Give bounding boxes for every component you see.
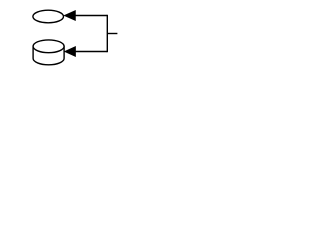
- wire vertical: [106, 15, 108, 52]
- arrowhead to cylinder: [65, 47, 76, 57]
- wire bottom horizontal: [75, 51, 107, 53]
- wire top horizontal: [75, 15, 107, 17]
- ellipse node: [33, 10, 64, 23]
- wire stub: [107, 33, 117, 35]
- cylinder node: [33, 40, 64, 65]
- arrowhead to ellipse: [64, 11, 75, 21]
